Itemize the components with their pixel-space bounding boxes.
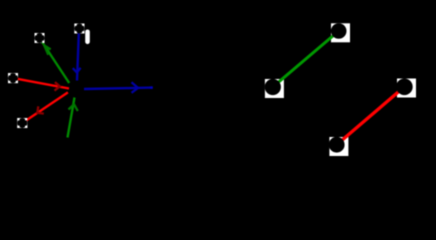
node L square bbox=[265, 79, 284, 98]
node C square bbox=[8, 73, 18, 83]
wire red edge B2-R bbox=[337, 87, 405, 145]
node B square bbox=[74, 24, 84, 34]
white ellipse marker bbox=[85, 30, 90, 45]
node A square bbox=[35, 33, 45, 43]
node B2 circle bbox=[329, 137, 345, 153]
node D square bbox=[17, 118, 27, 128]
wire green edge L-T bbox=[273, 31, 339, 87]
wire blue arrow hub to right bbox=[84, 82, 153, 93]
node T square bbox=[331, 23, 350, 42]
node A circle bbox=[35, 33, 45, 43]
wire green arrow bottom to hub bbox=[68, 98, 78, 138]
node B circle bbox=[74, 24, 84, 34]
node L circle bbox=[265, 79, 281, 95]
node T circle bbox=[331, 23, 347, 39]
node D circle bbox=[17, 118, 27, 128]
wire green arrow hub to A bbox=[40, 38, 70, 83]
node R circle bbox=[396, 79, 413, 96]
blue line end blob bbox=[150, 86, 153, 88]
wire red arrow C to hub bbox=[13, 78, 69, 91]
node C circle bbox=[8, 73, 18, 83]
wire blue arrow B to hub bbox=[73, 29, 81, 81]
wire red arrow hub to D bbox=[22, 92, 68, 123]
node B2 square bbox=[329, 137, 348, 156]
node R square bbox=[397, 79, 416, 98]
